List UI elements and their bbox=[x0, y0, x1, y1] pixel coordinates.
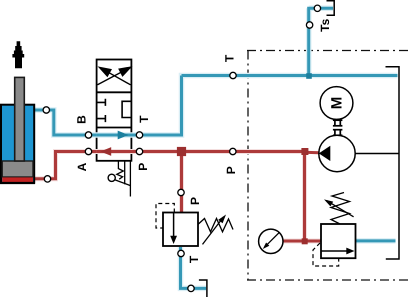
svg-text:M: M bbox=[328, 97, 345, 110]
wire: Ts sensor branch bbox=[309, 8, 333, 75]
V1 spring bbox=[198, 219, 233, 232]
V2 spring bbox=[331, 193, 350, 225]
cylinder C1 piston rod bbox=[15, 77, 25, 161]
svg-text:P: P bbox=[136, 163, 150, 171]
electric motor M1 bbox=[320, 87, 353, 120]
node: Ts port bbox=[314, 5, 320, 11]
coupling motor-pump bbox=[333, 120, 343, 135]
wire: pump suction line bbox=[355, 153, 399, 155]
node: Ts riser port bbox=[306, 22, 312, 28]
wire: branch down to gauge / valve V2 bbox=[283, 152, 321, 242]
svg-text:T: T bbox=[137, 115, 151, 123]
cylinder C1 piston bbox=[2, 161, 33, 177]
node: tank port bottom bbox=[188, 285, 194, 291]
V2 pilot line (dashed) bbox=[313, 243, 339, 266]
svg-text:B: B bbox=[75, 115, 89, 124]
wire: branch to relief valve V1 bbox=[180, 152, 183, 213]
wire: relief valve V1 outlet to tank bbox=[181, 247, 207, 288]
DCV lever knob bbox=[108, 174, 115, 181]
valve V2 body (bottom right) bbox=[321, 224, 356, 258]
node: boundary port T bbox=[230, 72, 236, 78]
svg-text:T: T bbox=[222, 54, 236, 62]
node: valve port T bbox=[136, 132, 142, 138]
node: V1 outlet port bbox=[178, 250, 184, 256]
node: junction pressure main / relief branch bbox=[177, 147, 186, 156]
cylinder C1 body bbox=[1, 105, 34, 183]
V2 adjustment arrow bbox=[327, 201, 354, 217]
Ts connection bracket top bbox=[327, 1, 335, 16]
tank / reservoir bracket right bbox=[386, 67, 400, 259]
svg-text:Ts: Ts bbox=[318, 18, 332, 31]
wire: valve V2 outlet to tank bbox=[356, 239, 396, 242]
node: cylinder piston-side port bbox=[44, 176, 50, 182]
svg-text:A: A bbox=[75, 162, 89, 171]
valve DCV 4/3 body bbox=[97, 60, 132, 161]
V1 pilot line (dashed) bbox=[156, 204, 174, 229]
V1 adjustment arrow bbox=[203, 217, 224, 244]
wire: valve B-T through line to riser bbox=[97, 76, 182, 136]
node: junction pressure main / pump bbox=[301, 148, 308, 155]
svg-text:P: P bbox=[224, 166, 238, 174]
node: junction gauge tee bbox=[302, 238, 308, 244]
node: boundary port P bbox=[230, 148, 236, 154]
V2 internal flow arrow bbox=[322, 250, 349, 252]
svg-text:P: P bbox=[188, 197, 202, 205]
node: valve port B bbox=[85, 132, 91, 138]
tank connection bracket bottom center bbox=[199, 280, 207, 297]
svg-text:T: T bbox=[187, 255, 201, 263]
pump P1 bbox=[319, 135, 355, 171]
node: tee junction T header bbox=[306, 73, 312, 79]
wire: cylinder piston-side to valve A (pressure, red) bbox=[35, 152, 97, 179]
cylinder C1 bottom edge bbox=[0, 182, 35, 184]
pressure gauge G1 bbox=[259, 229, 283, 253]
DCV position 2: blocked centre symbols bbox=[97, 99, 132, 122]
power unit enclosure (dash-dot frame) bbox=[247, 51, 411, 281]
wire: tank return header bbox=[182, 74, 398, 77]
node: V1 inlet port bbox=[178, 189, 184, 195]
wire: pump outlet stub bbox=[304, 151, 319, 155]
node: valve port A bbox=[85, 148, 91, 154]
DCV spring / lever actuator bbox=[115, 161, 130, 197]
V1 internal flow arrow bbox=[173, 213, 175, 237]
relief valve V1 body bbox=[163, 213, 198, 247]
wire: cylinder rod-side to valve B (tank line, teal) bbox=[34, 110, 97, 135]
DCV position 3 active: flow arrows bbox=[118, 131, 129, 140]
node: cylinder rod-side port bbox=[43, 107, 49, 113]
motion arrow (extend direction) bbox=[12, 41, 24, 68]
DCV position 1: crossed arrows bbox=[98, 67, 131, 85]
wire: pressure main P bbox=[97, 150, 305, 153]
node: valve port P bbox=[136, 148, 142, 154]
cylinder C1 cap-end chamber (red) bbox=[2, 177, 33, 182]
